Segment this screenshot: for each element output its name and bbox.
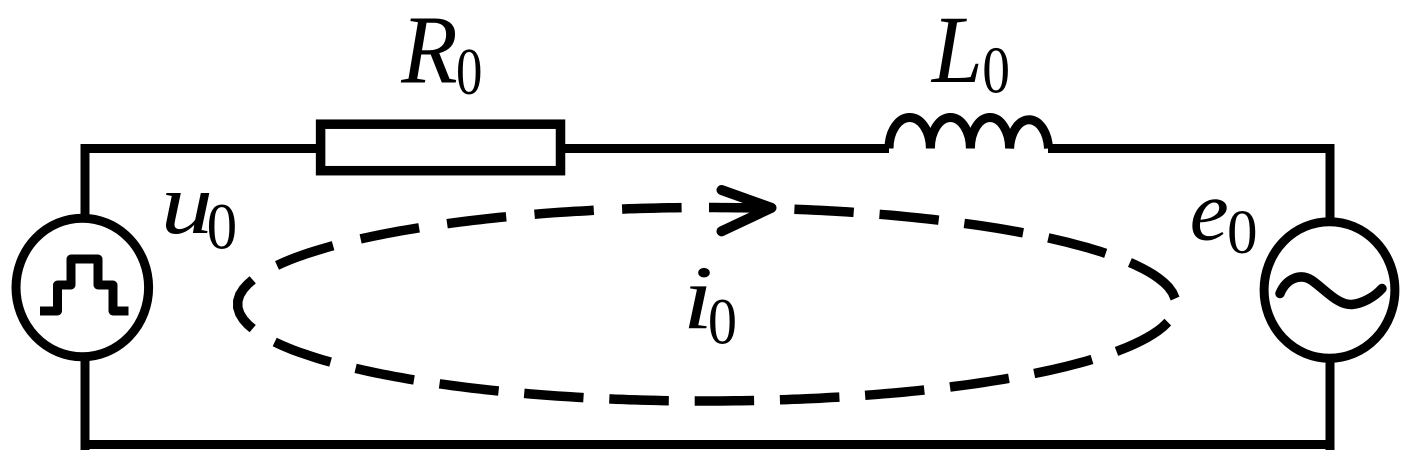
svg-text:0: 0 [456, 34, 482, 108]
svg-text:e: e [1190, 162, 1229, 258]
svg-text:0: 0 [207, 189, 238, 263]
svg-text:u: u [161, 155, 213, 252]
svg-text:0: 0 [708, 286, 737, 358]
svg-text:L: L [930, 0, 983, 103]
svg-text:R: R [400, 0, 457, 104]
svg-text:0: 0 [982, 34, 1010, 108]
svg-text:0: 0 [1227, 198, 1258, 267]
